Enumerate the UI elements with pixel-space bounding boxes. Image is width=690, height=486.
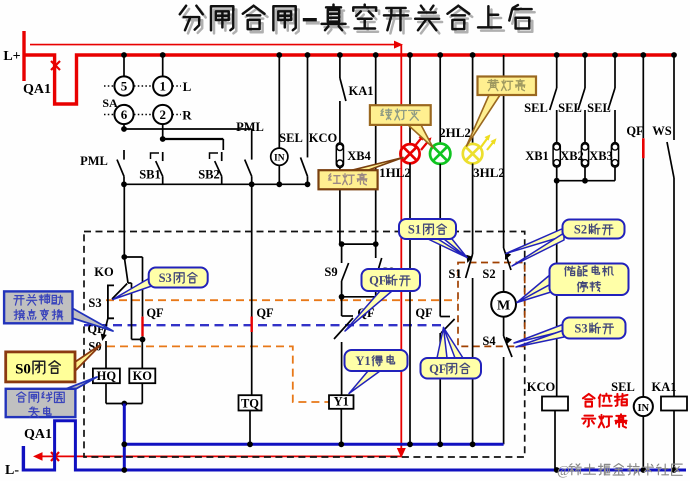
svg-text:QF: QF [256, 306, 274, 320]
svg-text:XB4: XB4 [347, 149, 371, 163]
svg-text:S3: S3 [574, 322, 587, 336]
svg-text:1: 1 [159, 79, 166, 94]
svg-text:5: 5 [121, 79, 128, 94]
svg-text:HQ: HQ [97, 369, 117, 383]
svg-text:SB2: SB2 [198, 168, 220, 182]
svg-text:PML: PML [236, 120, 264, 134]
svg-text:QF: QF [146, 306, 164, 320]
svg-text:IN: IN [637, 403, 649, 414]
svg-text:XB3: XB3 [589, 149, 613, 163]
svg-text:KO: KO [133, 369, 153, 383]
svg-text:@: @ [557, 464, 570, 479]
svg-text:KCO: KCO [309, 131, 338, 145]
svg-text:SB1: SB1 [139, 168, 161, 182]
svg-text:QF: QF [415, 306, 433, 320]
svg-text:KCO: KCO [527, 380, 556, 394]
svg-text:SEL: SEL [587, 101, 611, 115]
svg-text:L: L [183, 79, 192, 94]
svg-text:QA1: QA1 [24, 427, 52, 442]
svg-text:S9: S9 [324, 265, 337, 279]
svg-text:XB1: XB1 [525, 149, 549, 163]
svg-text:IN: IN [274, 154, 285, 164]
svg-text:KO: KO [94, 265, 114, 279]
svg-text:3HL2: 3HL2 [473, 165, 505, 180]
svg-text:R: R [182, 108, 192, 123]
svg-text:S3: S3 [88, 296, 101, 310]
svg-text:Y1: Y1 [334, 395, 349, 409]
svg-text:6: 6 [121, 107, 128, 122]
svg-text:1HL2: 1HL2 [379, 165, 411, 180]
svg-text:S2: S2 [482, 267, 495, 281]
svg-text:SEL: SEL [279, 131, 303, 145]
svg-text:KA1: KA1 [652, 380, 677, 394]
svg-text:QF: QF [429, 362, 447, 376]
svg-text:Y1: Y1 [355, 354, 370, 368]
svg-text:TQ: TQ [241, 396, 259, 410]
svg-text:S4: S4 [482, 334, 496, 348]
svg-text:S1: S1 [448, 267, 461, 281]
svg-text:QA1: QA1 [23, 82, 51, 97]
svg-text:S2: S2 [574, 223, 587, 237]
svg-text:2HL2: 2HL2 [439, 125, 471, 140]
svg-text:L+: L+ [3, 49, 20, 64]
svg-text:KA1: KA1 [349, 84, 374, 98]
svg-text:XB2: XB2 [560, 149, 584, 163]
svg-text:2: 2 [159, 107, 166, 122]
svg-text:L-: L- [5, 463, 19, 478]
svg-text:M: M [497, 299, 510, 314]
svg-text:SEL: SEL [524, 101, 548, 115]
svg-text:S0: S0 [15, 362, 31, 378]
svg-text:QF: QF [369, 274, 387, 288]
svg-text:SEL: SEL [611, 380, 635, 394]
svg-text:S3: S3 [159, 271, 172, 285]
svg-text:QF: QF [626, 124, 644, 138]
svg-text:SA: SA [102, 96, 118, 110]
svg-text:PML: PML [80, 154, 108, 168]
svg-text:SEL: SEL [558, 101, 582, 115]
svg-text:WS: WS [652, 124, 672, 138]
svg-text:S1: S1 [408, 223, 421, 237]
